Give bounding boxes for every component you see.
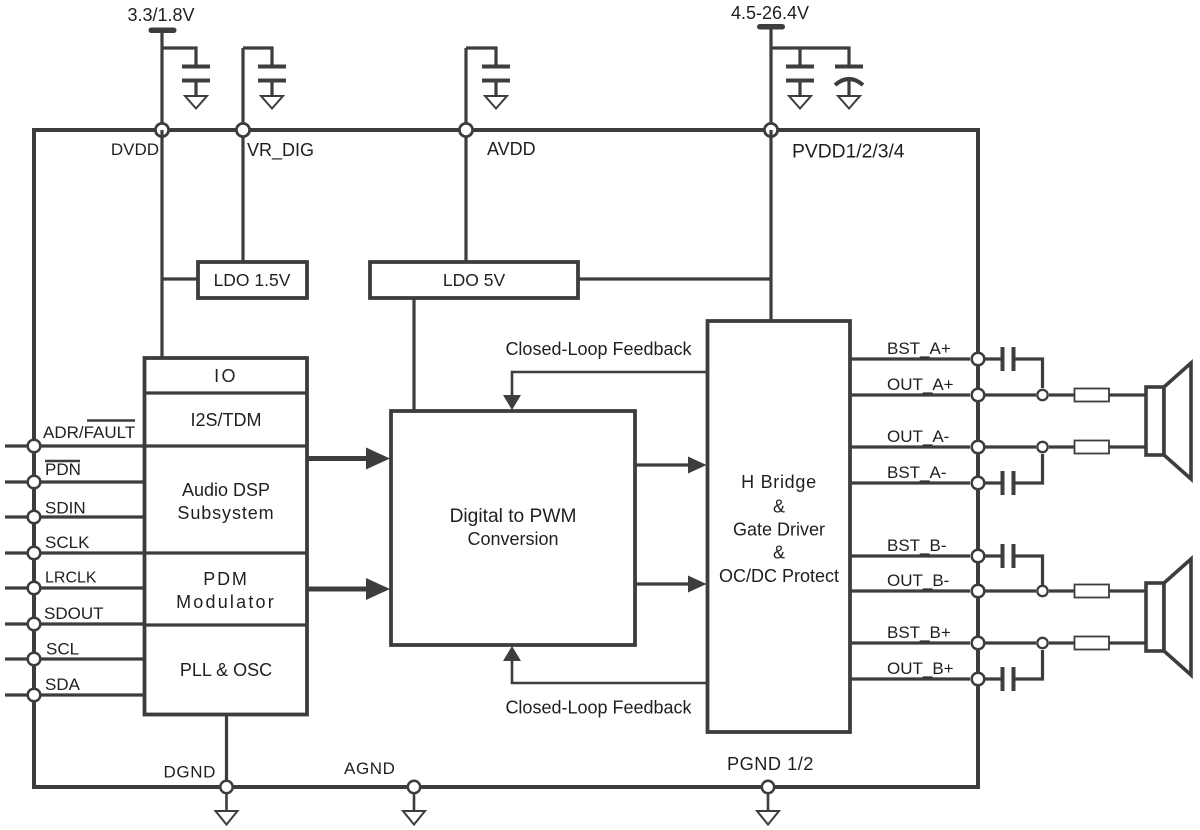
pin LRCLK xyxy=(5,570,145,595)
label Audio DSP Subsystem xyxy=(177,480,274,523)
wire PVDD supply xyxy=(769,29,772,130)
pin PDN xyxy=(5,460,145,488)
pin BST_A+ xyxy=(850,339,984,365)
wire feedback bottom xyxy=(503,646,708,683)
divider PDM/PLL xyxy=(145,623,308,626)
divider IO/I2S xyxy=(145,391,308,394)
svg-text:DGND: DGND xyxy=(164,763,216,782)
wire C3 to ground xyxy=(494,82,497,96)
wire A+ to ferrite xyxy=(1049,393,1075,396)
wire DGND xyxy=(225,715,228,788)
svg-text:OUT_B+: OUT_B+ xyxy=(887,659,954,678)
pin OUT_B- xyxy=(850,571,1036,597)
capacitor bootstrap A- xyxy=(984,454,1043,495)
svg-text:Subsystem: Subsystem xyxy=(177,503,274,523)
pin BST_B+ xyxy=(850,623,1036,649)
wire C2 to ground xyxy=(270,82,273,96)
ground C3 xyxy=(485,96,507,109)
svg-text:PDM: PDM xyxy=(203,569,248,589)
wire LDO5V out right to PVDD rail xyxy=(578,277,771,280)
pin OUT_A+ xyxy=(850,375,1036,401)
svg-text:&: & xyxy=(773,543,785,563)
svg-text:BST_A+: BST_A+ xyxy=(887,339,951,358)
node VR_DIG xyxy=(236,123,249,136)
wire ferrite to speaker B- xyxy=(1109,589,1146,592)
ferrite bead A+ xyxy=(1075,389,1110,402)
divider I2S/DSP xyxy=(145,444,308,447)
wire C4 to ground xyxy=(798,82,801,96)
ground C4 xyxy=(789,96,811,109)
speaker A xyxy=(1146,363,1191,479)
label PDM Modulator xyxy=(176,569,276,612)
wire DVDD supply xyxy=(160,33,163,130)
node PVDD1/2/3/4 xyxy=(764,123,777,136)
regulator LDO 5V xyxy=(370,262,578,298)
capacitor C5 polarized plates xyxy=(835,67,863,86)
capacitor C3 plates xyxy=(482,67,510,81)
svg-text:Closed-Loop Feedback: Closed-Loop Feedback xyxy=(505,698,692,718)
svg-text:4.5-26.4V: 4.5-26.4V xyxy=(731,3,809,23)
svg-text:LDO 5V: LDO 5V xyxy=(443,270,506,290)
wire C4 stub xyxy=(798,48,801,65)
svg-text:OUT_A-: OUT_A- xyxy=(887,427,949,446)
svg-text:OC/DC Protect: OC/DC Protect xyxy=(719,566,839,586)
pin AGND xyxy=(344,759,425,825)
svg-text:PDN: PDN xyxy=(45,460,81,479)
ground C5 xyxy=(838,96,860,109)
svg-text:I2S/TDM: I2S/TDM xyxy=(190,410,261,430)
wire C5 to ground xyxy=(847,80,850,96)
pin BST_A- xyxy=(850,463,984,489)
capacitor C1 plates xyxy=(182,67,210,81)
svg-text:Modulator: Modulator xyxy=(176,592,276,612)
svg-text:BST_A-: BST_A- xyxy=(887,463,947,482)
svg-text:OUT_B-: OUT_B- xyxy=(887,571,949,590)
wire VR_DIG drop xyxy=(241,48,244,262)
arrow DSP to PWM xyxy=(307,448,390,470)
wire PVDD internal drop xyxy=(769,130,772,321)
wire PVDD cap hook xyxy=(771,48,849,65)
capacitor bootstrap B- xyxy=(984,544,1043,585)
pin OUT_B+ xyxy=(850,659,984,685)
ferrite bead B- xyxy=(1075,585,1110,598)
svg-text:Digital to PWM: Digital to PWM xyxy=(450,506,577,527)
ferrite bead B+ xyxy=(1075,637,1110,650)
svg-text:3.3/1.8V: 3.3/1.8V xyxy=(127,5,194,25)
svg-text:BST_B-: BST_B- xyxy=(887,536,947,555)
svg-text:SDA: SDA xyxy=(45,675,81,694)
svg-text:OUT_A+: OUT_A+ xyxy=(887,375,954,394)
pin SDIN xyxy=(5,499,145,524)
wire ferrite to speaker A- xyxy=(1109,445,1146,448)
wire ferrite to speaker B+ xyxy=(1109,641,1146,644)
svg-text:BST_B+: BST_B+ xyxy=(887,623,951,642)
svg-text:IO: IO xyxy=(214,366,238,386)
svg-text:&: & xyxy=(773,497,785,517)
svg-text:AGND: AGND xyxy=(344,759,396,778)
svg-text:VR_DIG: VR_DIG xyxy=(247,140,314,161)
pin PGND 1/2 xyxy=(727,754,814,825)
arrow PDM to PWM xyxy=(307,578,390,600)
ground C1 xyxy=(185,96,207,109)
svg-text:ADR/FAULT: ADR/FAULT xyxy=(43,423,135,442)
wire DVDD to LDO 1.5V xyxy=(162,277,198,280)
svg-text:LRCLK: LRCLK xyxy=(45,570,97,587)
node DVDD xyxy=(155,123,168,136)
wire B+ to ferrite xyxy=(1049,641,1075,644)
power bar 3.3/1.8V xyxy=(149,28,177,34)
svg-text:DVDD: DVDD xyxy=(111,140,159,159)
svg-text:Gate Driver: Gate Driver xyxy=(733,520,825,540)
wire DVDD cap hook xyxy=(162,48,196,65)
block H Bridge / Gate Driver / OC/DC Protect xyxy=(708,321,851,732)
node junction A- xyxy=(1037,442,1047,452)
node junction B+ xyxy=(1037,638,1047,648)
wire AVDD drop xyxy=(464,48,467,262)
ground C2 xyxy=(261,96,283,109)
wire B- to ferrite xyxy=(1049,589,1075,592)
svg-text:SCL: SCL xyxy=(46,640,79,659)
wire ferrite to speaker A+ xyxy=(1109,393,1146,396)
speaker B xyxy=(1146,559,1191,675)
ferrite bead A- xyxy=(1075,441,1110,454)
arrow PWM to HBridge lower xyxy=(635,576,707,593)
pin SDA xyxy=(5,675,145,701)
svg-text:SDIN: SDIN xyxy=(45,499,86,518)
wire VR_DIG cap hook xyxy=(243,48,272,65)
svg-text:Audio DSP: Audio DSP xyxy=(182,480,270,500)
node AVDD xyxy=(459,123,472,136)
pin BST_B- xyxy=(850,536,984,562)
pin ADR/FAULT xyxy=(5,421,145,453)
wire DVDD internal drop xyxy=(160,130,163,358)
block digital core stack xyxy=(145,358,308,715)
wire C1 to ground xyxy=(194,82,197,96)
arrow PWM to HBridge upper xyxy=(635,457,707,474)
wire feedback top xyxy=(503,372,708,410)
divider DSP/PDM xyxy=(145,551,308,554)
svg-text:PGND 1/2: PGND 1/2 xyxy=(727,754,814,774)
svg-text:PLL & OSC: PLL & OSC xyxy=(180,660,272,680)
svg-text:LDO 1.5V: LDO 1.5V xyxy=(214,270,291,290)
wire A- to ferrite xyxy=(1049,445,1075,448)
svg-text:H Bridge: H Bridge xyxy=(741,472,817,492)
node junction A+ xyxy=(1037,390,1047,400)
chip boundary xyxy=(34,130,978,787)
svg-text:AVDD: AVDD xyxy=(487,139,536,159)
svg-text:Conversion: Conversion xyxy=(467,529,558,549)
block Digital to PWM Conversion xyxy=(391,411,635,645)
svg-text:SDOUT: SDOUT xyxy=(44,604,104,623)
pin SDOUT xyxy=(5,604,145,630)
power bar 4.5-26.4V xyxy=(757,24,785,30)
wire AVDD cap hook xyxy=(466,48,496,65)
svg-text:SCLK: SCLK xyxy=(45,533,90,552)
pin SCLK xyxy=(5,533,145,559)
regulator LDO 1.5V xyxy=(198,262,307,298)
capacitor C4 plates xyxy=(786,67,814,81)
node junction B- xyxy=(1037,586,1047,596)
pin OUT_A- xyxy=(850,427,1036,453)
svg-text:Closed-Loop Feedback: Closed-Loop Feedback xyxy=(505,339,692,359)
pin SCL xyxy=(5,640,145,666)
wire LDO5V down to PWM xyxy=(412,298,415,411)
capacitor bootstrap A+ xyxy=(984,347,1043,388)
capacitor C2 plates xyxy=(258,67,286,81)
pin DGND xyxy=(164,763,238,825)
capacitor bootstrap B+ xyxy=(984,650,1043,691)
svg-text:PVDD1/2/3/4: PVDD1/2/3/4 xyxy=(792,142,905,163)
